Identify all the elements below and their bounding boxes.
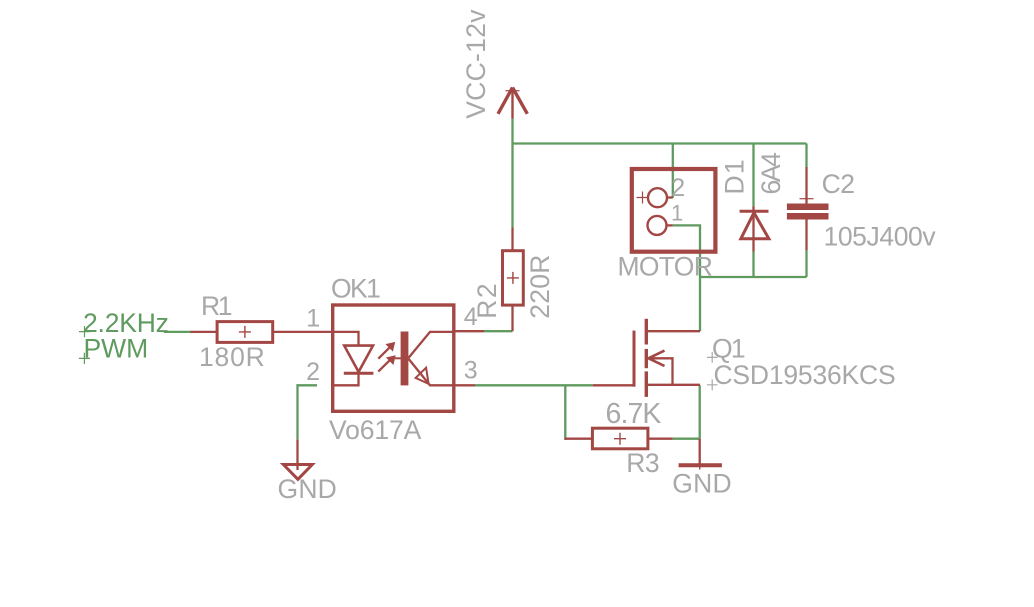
svg-text:VCC-12v: VCC-12v: [461, 9, 491, 119]
svg-text:105J400v: 105J400v: [824, 222, 937, 252]
OK1 pin3 lead: [454, 384, 475, 386]
OK1 pin4 lead: [454, 330, 484, 332]
wire C2 top drop: [805, 144, 807, 168]
resistor R1: [191, 322, 333, 343]
supply symbol VCC arrow: [498, 88, 527, 119]
wire D1 top drop: [752, 144, 754, 207]
capacitor C2: [787, 167, 829, 250]
origin cross PWM: [79, 353, 90, 364]
wire PWM to R1: [164, 331, 191, 333]
connector MOTOR: [632, 169, 716, 252]
wire motor pin2 drop: [672, 144, 674, 198]
wire gate branch to R3: [565, 385, 566, 438]
wire motor pin1 to drain: [673, 225, 700, 331]
svg-text:D1: D1: [720, 158, 750, 194]
resistor R2: [503, 228, 524, 332]
ground GND (triangle, left): [283, 439, 312, 479]
diode D1: [740, 207, 769, 252]
svg-text:R3: R3: [626, 448, 659, 478]
wire D1 bottom: [752, 252, 754, 278]
svg-text:MOTOR: MOTOR: [618, 252, 713, 282]
MOSFET Q1: [593, 319, 700, 397]
ground GND (bar, right): [679, 439, 722, 470]
svg-text:R1: R1: [201, 291, 232, 321]
svg-text:CSD19536KCS: CSD19536KCS: [714, 360, 896, 390]
svg-text:Vo617A: Vo617A: [329, 415, 422, 445]
svg-text:1: 1: [671, 201, 683, 226]
wire source drop: [699, 385, 701, 438]
wire VCC vertical to R2: [511, 119, 513, 228]
wire top rail: [513, 142, 807, 144]
optocoupler OK1: [333, 305, 454, 411]
svg-text:PWM: PWM: [84, 334, 149, 364]
resistor R3: [565, 428, 673, 449]
svg-text:2: 2: [306, 358, 320, 386]
svg-text:4: 4: [464, 303, 478, 331]
svg-text:3: 3: [464, 356, 478, 384]
wire OK1 pin2 to GND: [298, 385, 318, 439]
svg-text:220R: 220R: [525, 254, 555, 318]
wire R2 bottom to OK1 pin4: [484, 330, 513, 332]
wire bottom rail: [700, 276, 807, 278]
svg-text:GND: GND: [672, 468, 732, 498]
wire R3 right to source: [673, 438, 700, 440]
svg-text:6.7K: 6.7K: [606, 398, 662, 430]
svg-text:2: 2: [671, 174, 685, 202]
svg-text:6A4: 6A4: [756, 153, 786, 195]
Q1 origin crosses: [707, 352, 718, 390]
origin cross 2.2KHz: [79, 326, 90, 337]
wire OK1 pin3 to gate: [475, 384, 593, 386]
svg-text:1: 1: [306, 305, 320, 333]
net label origin crosses: [79, 326, 90, 364]
svg-text:GND: GND: [278, 474, 338, 504]
wire C2 bottom: [805, 250, 807, 277]
svg-text:180R: 180R: [199, 342, 266, 372]
svg-text:OK1: OK1: [331, 274, 380, 304]
svg-text:C2: C2: [822, 169, 855, 199]
